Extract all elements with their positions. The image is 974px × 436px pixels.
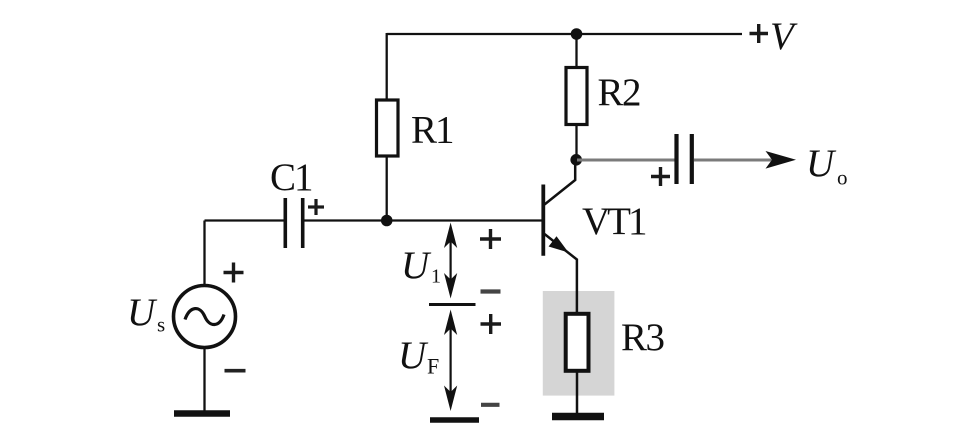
polarity + UF <box>481 314 502 334</box>
transistor VT1 emitter arrowhead <box>549 236 569 252</box>
transistor VT1 base bar <box>541 185 545 256</box>
node top rail / R2 <box>571 28 583 40</box>
wire R2 top <box>575 34 577 68</box>
resistor R2 <box>566 68 587 125</box>
ground reference bar UF <box>430 417 479 423</box>
svg-text:U: U <box>401 244 432 287</box>
wire R1 bottom <box>386 156 388 221</box>
capacitor C1 right plate <box>301 198 305 248</box>
arrowhead UF up <box>444 310 457 336</box>
svg-text:U: U <box>127 291 158 334</box>
source Us sine <box>185 309 224 325</box>
wire output arrow shaft <box>694 159 772 162</box>
ground source <box>174 410 230 417</box>
svg-text:s: s <box>157 313 165 337</box>
arrow UF shaft <box>450 315 452 405</box>
wire source to C1 <box>205 219 285 221</box>
svg-text:F: F <box>427 354 439 379</box>
resistor R3 <box>566 314 589 371</box>
arrowhead U1 up <box>444 223 457 249</box>
capacitor C2 output right plate <box>690 134 694 184</box>
polarity - source <box>225 369 246 373</box>
net +V label <box>750 24 769 43</box>
wire R2 bottom <box>575 125 577 161</box>
wire source bottom lead <box>203 347 205 412</box>
capacitor C1 left plate <box>283 198 287 248</box>
svg-text:U: U <box>398 334 429 377</box>
polarity + output cap <box>651 167 670 186</box>
R3 highlight box <box>543 291 615 396</box>
svg-text:1: 1 <box>431 266 441 288</box>
wire source top lead <box>203 221 205 287</box>
node base junction <box>381 215 393 227</box>
arrow U1 shaft <box>450 228 452 293</box>
arrowhead UF down <box>444 386 457 412</box>
wire top rail <box>387 33 742 35</box>
svg-text:C1: C1 <box>270 156 312 199</box>
wire collector to output cap <box>577 159 675 162</box>
svg-text:R3: R3 <box>621 316 664 359</box>
capacitor C2 output left plate <box>674 134 678 184</box>
svg-text:U: U <box>806 142 837 185</box>
wire R3 bottom <box>576 371 579 413</box>
output arrowhead <box>766 151 797 169</box>
polarity - U1 <box>481 289 501 293</box>
polarity + source <box>224 263 244 283</box>
wire C1 to base node to transistor base <box>304 219 544 221</box>
svg-text:VT1: VT1 <box>582 200 646 243</box>
node collector output <box>570 154 582 166</box>
svg-text:V: V <box>770 15 798 58</box>
polarity - UF <box>481 403 500 407</box>
arrowhead U1 down <box>444 273 457 299</box>
source Us circle <box>174 286 236 348</box>
polarity + C1 <box>308 199 324 215</box>
transistor VT1 collector <box>545 160 576 205</box>
svg-text:R1: R1 <box>411 109 453 152</box>
wire R1 top <box>386 33 388 100</box>
node separator bar <box>429 303 476 306</box>
svg-text:R2: R2 <box>598 71 641 114</box>
transistor VT1 emitter <box>545 234 577 313</box>
polarity + U1 <box>480 229 501 249</box>
ground emitter <box>552 413 604 421</box>
resistor R1 <box>377 100 399 156</box>
svg-text:o: o <box>837 166 848 190</box>
